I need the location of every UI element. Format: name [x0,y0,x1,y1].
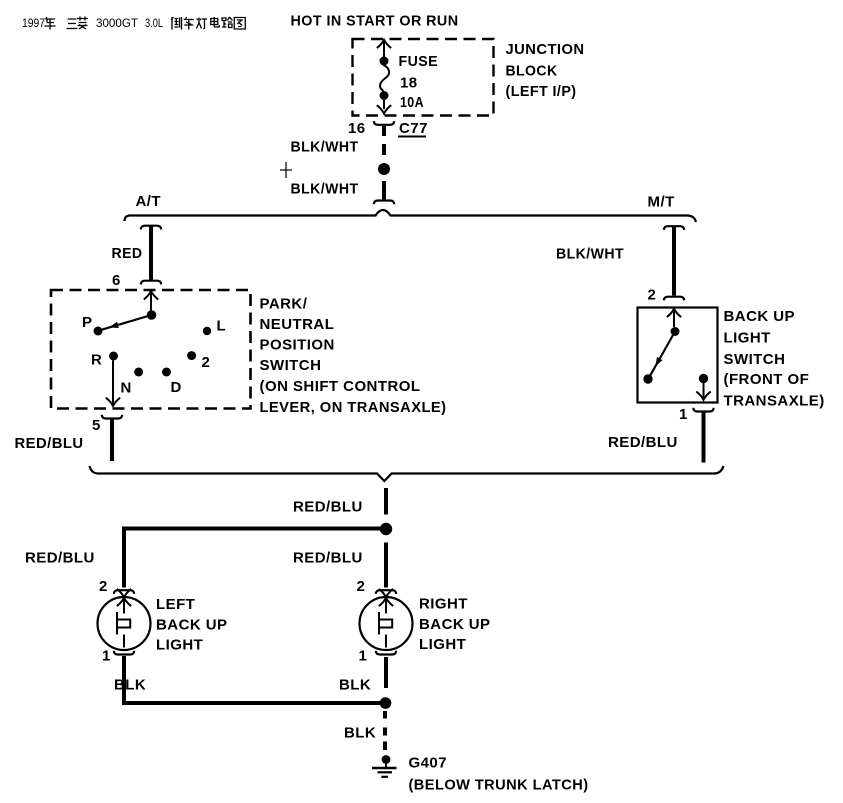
svg-text:3000GT: 3000GT [96,16,139,30]
svg-text:LEFT: LEFT [156,596,195,613]
svg-text:BLK/WHT: BLK/WHT [556,246,624,263]
svg-text:LEVER, ON TRANSAXLE): LEVER, ON TRANSAXLE) [260,399,447,416]
svg-text:2: 2 [202,354,211,371]
svg-text:FUSE: FUSE [399,53,439,70]
svg-text:(ON SHIFT CONTROL: (ON SHIFT CONTROL [260,378,421,395]
svg-text:RED/BLU: RED/BLU [293,550,363,567]
svg-text:LIGHT: LIGHT [724,330,771,347]
svg-text:TRANSAXLE): TRANSAXLE) [724,393,825,410]
svg-text:RIGHT: RIGHT [419,596,468,613]
svg-text:RED/BLU: RED/BLU [293,499,363,516]
svg-text:PARK/: PARK/ [260,296,308,313]
svg-text:NEUTRAL: NEUTRAL [260,316,335,333]
svg-text:C77: C77 [399,120,428,137]
svg-text:1: 1 [679,406,688,423]
svg-text:BLK: BLK [339,677,371,694]
svg-text:A/T: A/T [136,193,162,210]
svg-text:SWITCH: SWITCH [724,351,786,368]
svg-text:JUNCTION: JUNCTION [506,41,585,58]
svg-text:2: 2 [648,287,657,304]
svg-text:BLK/WHT: BLK/WHT [291,139,359,156]
svg-text:(LEFT I/P): (LEFT I/P) [506,83,577,100]
svg-text:BLK: BLK [344,725,376,742]
svg-text:10A: 10A [400,94,424,111]
svg-text:BLK: BLK [114,677,146,694]
svg-text:3.0L: 3.0L [145,16,163,30]
svg-text:BACK UP: BACK UP [724,308,796,325]
svg-text:R: R [91,352,102,369]
svg-text:18: 18 [400,75,418,92]
svg-text:16: 16 [348,120,366,137]
svg-text:BLOCK: BLOCK [506,63,558,80]
svg-text:BACK UP: BACK UP [156,617,228,634]
svg-text:M/T: M/T [648,194,675,211]
svg-text:(BELOW TRUNK LATCH): (BELOW TRUNK LATCH) [409,777,589,794]
svg-text:D: D [171,379,182,396]
svg-text:6: 6 [112,272,121,289]
svg-text:2: 2 [99,578,108,595]
svg-text:(FRONT OF: (FRONT OF [724,371,810,388]
svg-text:G407: G407 [409,755,448,772]
svg-text:1: 1 [102,648,111,665]
svg-text:LIGHT: LIGHT [419,636,466,653]
svg-text:RED/BLU: RED/BLU [15,435,84,452]
svg-text:2: 2 [357,578,366,595]
svg-text:SWITCH: SWITCH [260,357,322,374]
svg-text:N: N [121,379,132,396]
svg-text:RED/BLU: RED/BLU [25,550,95,567]
svg-text:1997: 1997 [22,16,45,30]
svg-text:RED: RED [112,245,143,262]
svg-text:L: L [217,318,227,335]
svg-text:BACK UP: BACK UP [419,616,491,633]
svg-text:POSITION: POSITION [260,337,335,354]
svg-text:BLK/WHT: BLK/WHT [291,181,359,198]
svg-text:5: 5 [92,417,101,434]
svg-text:RED/BLU: RED/BLU [608,434,678,451]
svg-text:LIGHT: LIGHT [156,637,203,654]
svg-text:HOT IN START OR RUN: HOT IN START OR RUN [291,13,459,30]
svg-text:P: P [82,314,92,331]
svg-text:1: 1 [359,648,368,665]
